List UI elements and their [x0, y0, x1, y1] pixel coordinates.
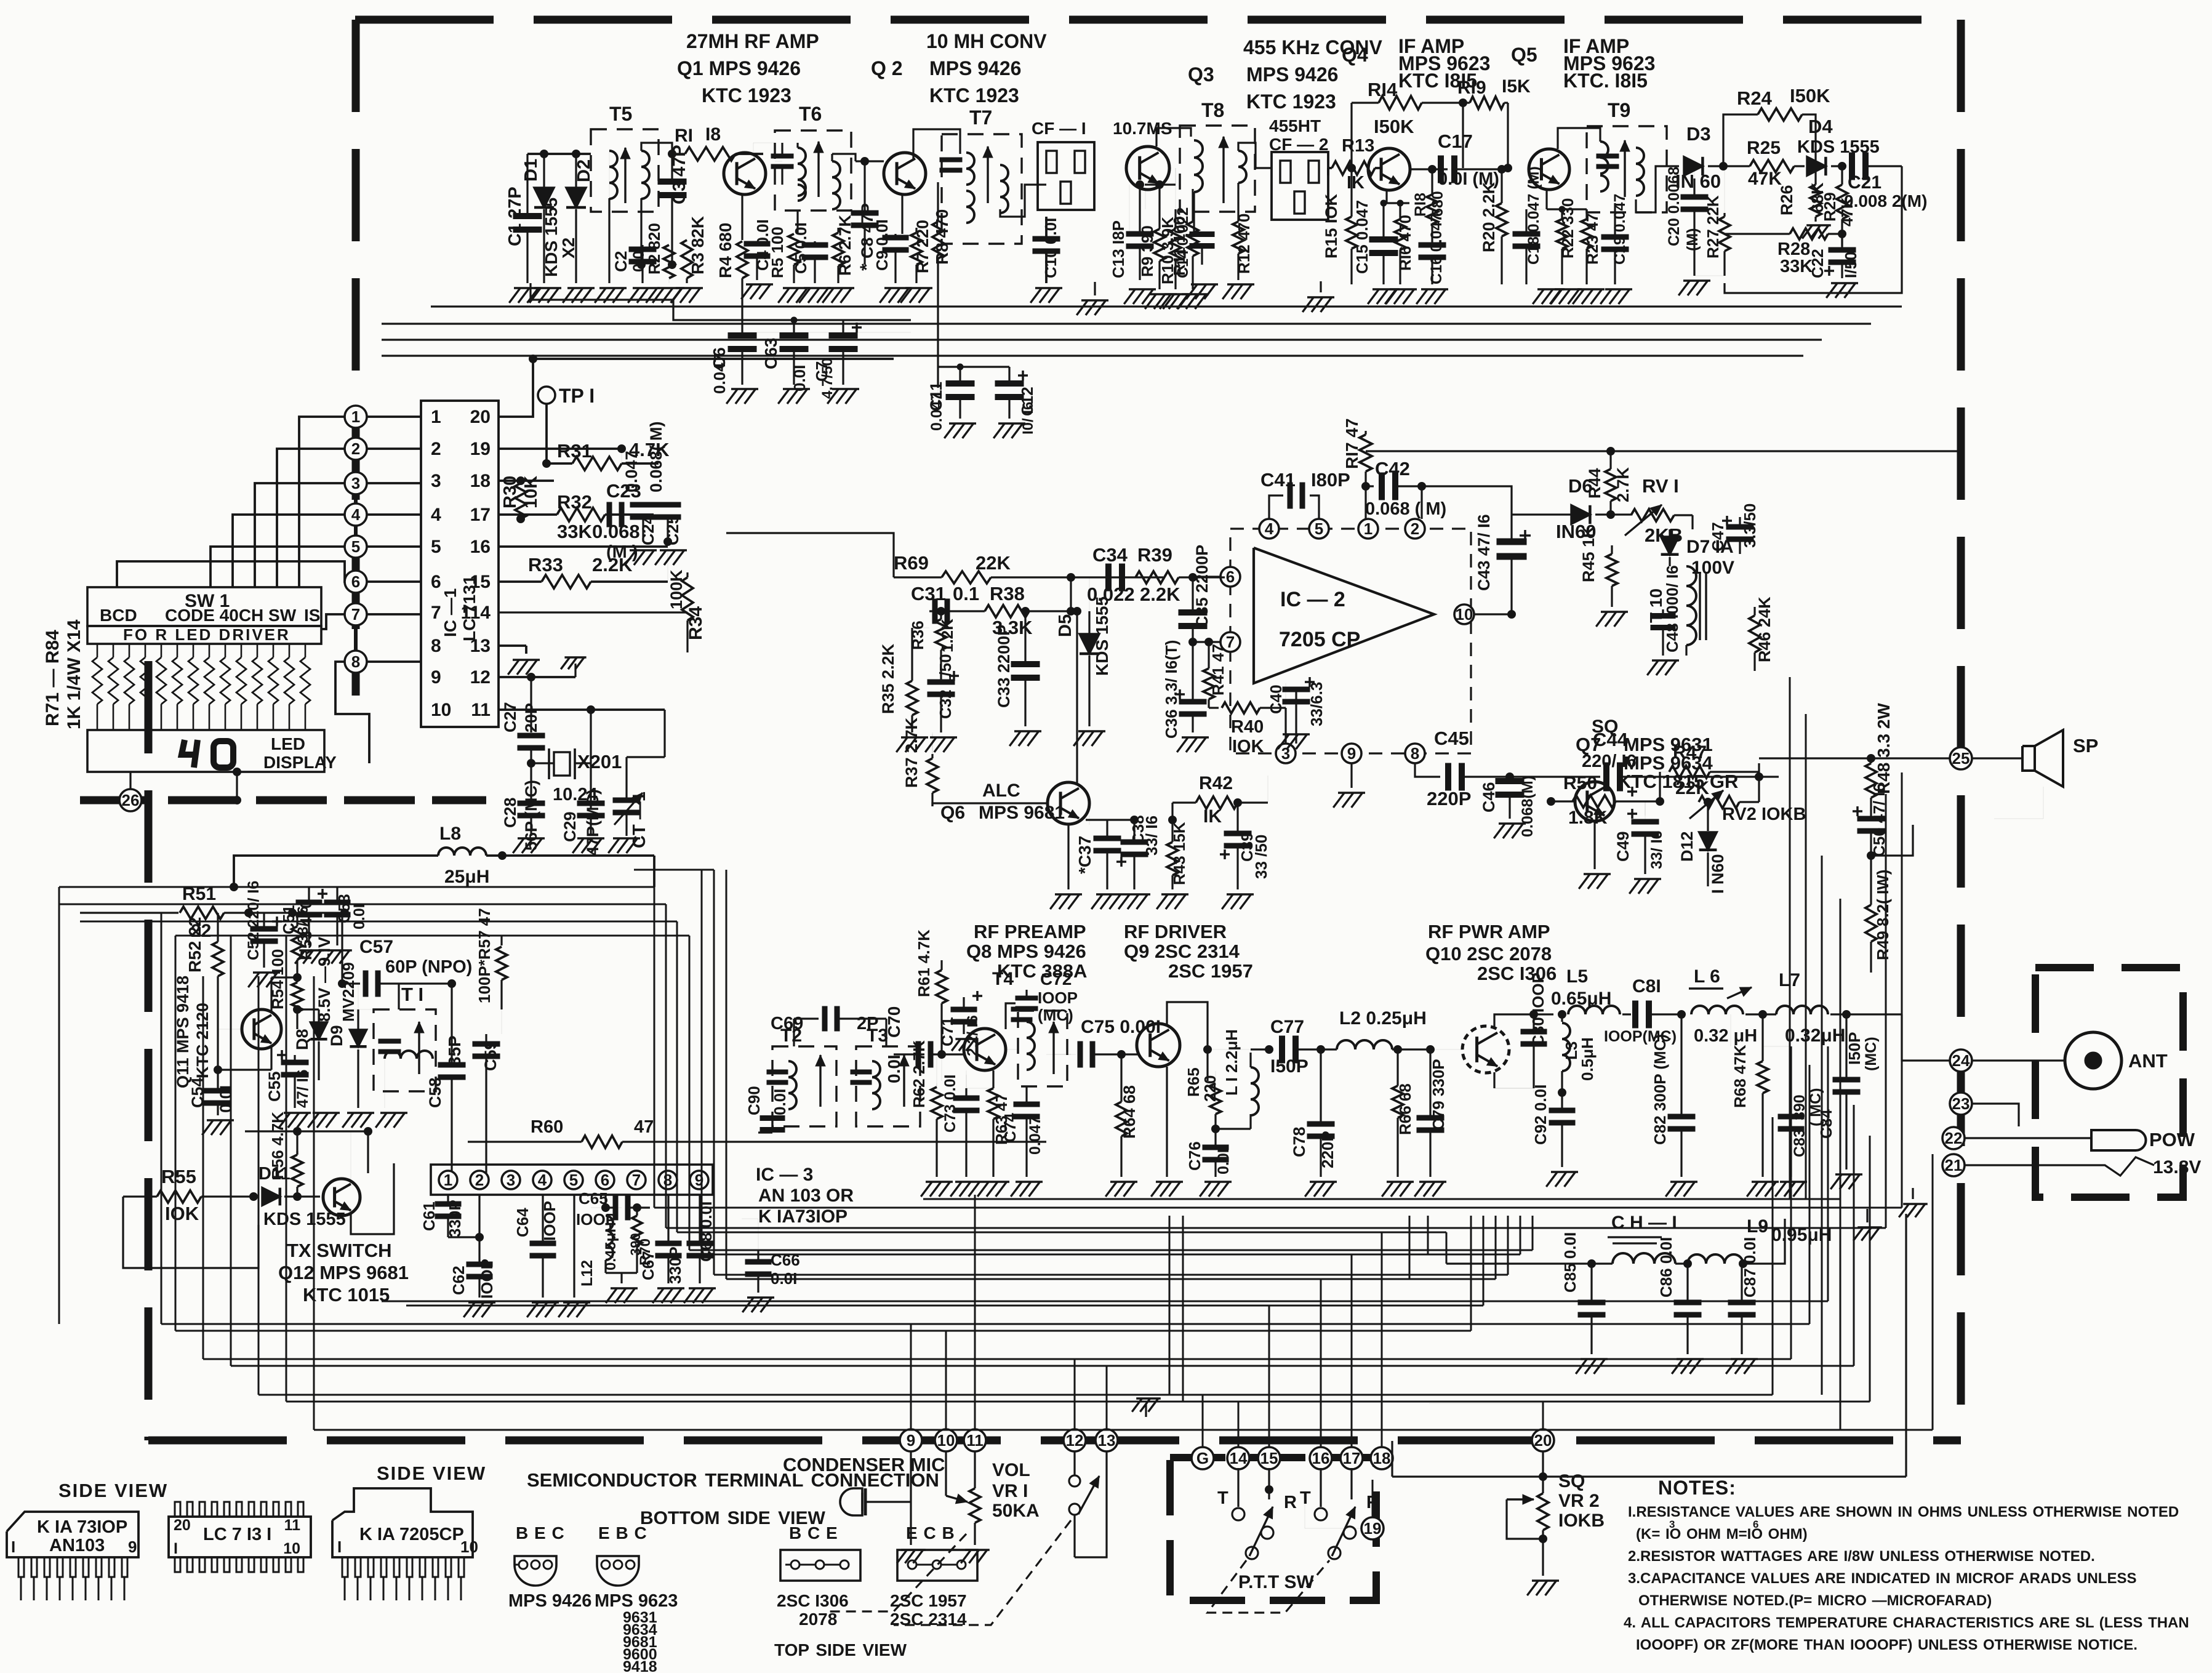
CF-1 out: [1145, 183, 1176, 185]
T4 coil: [1027, 1022, 1035, 1070]
capacitor C53 0.01: [336, 887, 338, 900]
wire TP1 stub: [545, 404, 548, 463]
svg-text:33/ I6: 33/ I6: [1142, 816, 1161, 856]
wire coil L8: [438, 848, 486, 856]
connector node 21: [1942, 1154, 1965, 1176]
svg-text:D4: D4: [1808, 116, 1833, 137]
wire R50 right to RV2: [1616, 800, 1660, 802]
connector node 8: [345, 651, 367, 673]
svg-text:C14 0.022: C14 0.022: [1174, 207, 1192, 278]
IC-3 pin 6: [596, 1171, 614, 1189]
svg-text:R27 22K: R27 22K: [1704, 195, 1722, 259]
svg-text:IOKB: IOKB: [1558, 1511, 1605, 1531]
ground D1: [534, 287, 561, 289]
svg-text:L I 2.2μH: L I 2.2μH: [1222, 1029, 1241, 1096]
resistor R48 3.3 2W: [1867, 755, 1875, 763]
ground VR2: [1532, 1579, 1559, 1582]
wire Q3 emitter: [1145, 190, 1146, 209]
capacitor C9 0.01: [894, 234, 896, 238]
coil L1 2.2uH: [1251, 1067, 1259, 1115]
capacitor C54 0.01: [217, 1080, 218, 1088]
svg-text:C79 330P: C79 330P: [1429, 1059, 1448, 1130]
svg-text:33 /50: 33 /50: [1252, 835, 1270, 879]
CF-1 gnd lead: [1094, 282, 1096, 295]
ground VR1: [965, 1549, 990, 1551]
svg-text:5: 5: [569, 1171, 578, 1189]
capacitor C7 4.7/50: [842, 320, 844, 335]
resistor R9 390: [1158, 185, 1160, 229]
wire bus line y2151: [161, 1323, 1809, 1325]
ground Q7: [1584, 873, 1611, 875]
capacitor C44 220/16: [1510, 776, 1600, 777]
wire bus line y1962: [654, 1207, 1902, 1209]
wire Q11 emitter: [270, 1045, 272, 1070]
svg-text:0.047: 0.047: [622, 451, 641, 492]
ground T5 pri: [599, 287, 627, 289]
wire node 6 to IC-1 pin 6: [356, 580, 421, 583]
resistor R53 470: [296, 913, 298, 926]
svg-text:OTHERWISE NOTED.(P= MICRO —MIC: OTHERWISE NOTED.(P= MICRO —MICROFARAD): [1638, 1592, 1992, 1609]
wire pin2-C43: [1422, 486, 1512, 539]
ground C78: [1310, 1181, 1337, 1183]
svg-text:16: 16: [1312, 1449, 1330, 1467]
svg-text:0.32μH: 0.32μH: [1785, 1025, 1845, 1046]
svg-text:50KA: 50KA: [992, 1501, 1040, 1521]
pcb outline dashed border upper-left vertical: [352, 20, 360, 696]
resistor R4 680: [737, 241, 748, 278]
IC-3 pin 8: [659, 1171, 677, 1189]
svg-text:E B C: E B C: [598, 1523, 647, 1543]
capacitor C38 33/16: [1133, 820, 1135, 840]
ground R3: [676, 287, 703, 289]
svg-text:8: 8: [1411, 744, 1419, 763]
wire R19 risers: [1462, 103, 1464, 168]
capacitor C67 330P: [667, 1194, 669, 1241]
svg-text:R46 24K: R46 24K: [1755, 596, 1774, 662]
svg-text:3: 3: [507, 1171, 515, 1189]
ANT POW dashed box: [2035, 968, 2183, 1197]
svg-text:C59: C59: [481, 1040, 500, 1071]
diode D11 KDS1555: [262, 1188, 280, 1206]
svg-text:1: 1: [1364, 520, 1372, 538]
resistor R66 68: [1397, 1049, 1398, 1086]
wire Q2 emitter: [901, 195, 903, 234]
wire bus riser x3064: [1885, 794, 1887, 1228]
svg-text:11: 11: [471, 700, 491, 720]
wire IC-1 pin19: [499, 447, 622, 450]
svg-text:0.047: 0.047: [928, 392, 945, 431]
resistor R41 47: [1208, 642, 1209, 668]
svg-text:L12: L12: [579, 1260, 596, 1286]
resistor R34: [686, 572, 688, 577]
connector node 12: [1064, 1429, 1086, 1451]
wire Q10 collector: [1494, 1014, 1534, 1027]
ground C5: [804, 287, 831, 289]
wire D4 to C21: [1831, 165, 1846, 167]
connector node 24: [1950, 1049, 1972, 1072]
diode D12 IN60: [1707, 802, 1709, 831]
switch at node 12: [1073, 1451, 1075, 1475]
pin9 lead: [1350, 763, 1352, 788]
svg-text:KDS 1555: KDS 1555: [1092, 596, 1112, 676]
resistor R18 680: [1431, 169, 1433, 195]
svg-text:0.32 μH: 0.32 μH: [1694, 1026, 1757, 1046]
svg-text:C74: C74: [1001, 1113, 1019, 1142]
wire Q5 collector to T9: [1558, 128, 1600, 149]
svg-text:0.45μH: 0.45μH: [603, 1222, 619, 1270]
svg-text:2.2K: 2.2K: [592, 554, 633, 576]
svg-text:R32: R32: [557, 491, 592, 513]
wire Q10 base: [1430, 1049, 1463, 1050]
wire SP return: [1994, 787, 2043, 819]
svg-text:C28: C28: [501, 797, 519, 828]
switch linkage dashes: [894, 1520, 1071, 1625]
connector node 15: [1258, 1447, 1280, 1469]
pcb outline dashed border right: [1957, 20, 1965, 1440]
IC-3 pin 9: [690, 1171, 708, 1189]
ground C25: [660, 549, 687, 552]
svg-text:17: 17: [1343, 1449, 1361, 1467]
wire bus riser x2970: [1827, 1046, 1829, 1301]
wire pin2 down: [478, 1194, 480, 1237]
wire pin16-col: [667, 547, 668, 582]
svg-text:C92 0.0I: C92 0.0I: [1531, 1085, 1550, 1145]
diode D1: [543, 154, 545, 188]
package LC7131 DIP: [169, 1517, 311, 1557]
svg-text:C71: C71: [938, 1017, 956, 1046]
wire mic to node9: [865, 1501, 911, 1502]
wire C42 down to pin1: [1368, 486, 1369, 519]
svg-text:33/ I6: 33/ I6: [295, 906, 311, 943]
ground C92: [1551, 1171, 1578, 1173]
svg-text:R44: R44: [1585, 468, 1604, 499]
connector node 13: [1096, 1429, 1118, 1451]
wire T5 sec to C2 node: [640, 263, 642, 265]
svg-text:R7 220: R7 220: [913, 220, 932, 273]
svg-text:33K: 33K: [557, 521, 592, 542]
capacitor C41 180P loop: [1269, 495, 1283, 519]
svg-text:R41 47: R41 47: [1209, 644, 1227, 696]
svg-text:0.1: 0.1: [953, 583, 979, 604]
ground R35: [901, 736, 928, 739]
svg-text:RI7 47: RI7 47: [1342, 419, 1361, 470]
capacitor C80 100P: [1533, 1014, 1534, 1029]
svg-text:5: 5: [1315, 520, 1323, 538]
svg-text:220P: 220P: [1427, 788, 1471, 809]
ground C16: [1421, 288, 1448, 291]
svg-text:21: 21: [1945, 1156, 1963, 1174]
svg-text:2.2K: 2.2K: [1140, 584, 1180, 605]
svg-text:2SC 2314: 2SC 2314: [890, 1610, 967, 1629]
svg-text:RF DRIVER: RF DRIVER: [1124, 921, 1227, 942]
svg-text:MPS 9426: MPS 9426: [929, 57, 1021, 79]
svg-text:LC 7 I3 I: LC 7 I3 I: [203, 1525, 271, 1544]
IC-3 pin 4: [533, 1171, 551, 1189]
ground pin13: [513, 659, 540, 661]
svg-text:100P*R57 47: 100P*R57 47: [475, 908, 494, 1003]
svg-text:I80P: I80P: [1311, 469, 1350, 491]
svg-text:24: 24: [1952, 1051, 1970, 1070]
IC-3 pin 2: [470, 1171, 489, 1189]
wire node24 to ANT: [1972, 1059, 2065, 1061]
svg-text:12: 12: [470, 667, 491, 688]
svg-text:BCD: BCD: [100, 606, 137, 625]
svg-text:114: 114: [461, 603, 491, 623]
svg-text:R34: R34: [686, 606, 706, 640]
wire left riser x375: [230, 936, 232, 1366]
ground C52: [253, 971, 280, 974]
svg-text:5: 5: [351, 537, 360, 556]
svg-text:C62: C62: [449, 1266, 468, 1295]
capacitor C21: [1849, 153, 1855, 180]
svg-text:RV2 IOKB: RV2 IOKB: [1722, 804, 1806, 824]
svg-text:18: 18: [1373, 1449, 1391, 1467]
capacitor C39 33/50: [1236, 803, 1238, 831]
wire Q11 base: [218, 1029, 242, 1030]
wire RV1 right: [1674, 514, 1693, 516]
wire L1/R65 bottom: [1214, 1114, 1216, 1129]
svg-text:T8: T8: [1201, 99, 1224, 121]
svg-text:1.8K: 1.8K: [1568, 808, 1608, 828]
wire L8 junction: [486, 854, 502, 857]
IC-3 pin 7: [627, 1171, 646, 1189]
capacitor C82 300P(MC): [1680, 1014, 1682, 1114]
svg-text:R45 1K: R45 1K: [1579, 526, 1598, 582]
ground C7: [832, 388, 859, 390]
svg-text:10: 10: [937, 1431, 955, 1450]
wire bottom riser x1584: [974, 1195, 976, 1429]
svg-text:33/6.3: 33/6.3: [1307, 682, 1326, 726]
capacitor *C37: [1107, 820, 1108, 832]
wire riser x1082b: [665, 904, 667, 1228]
resistor R12 470: [1237, 183, 1239, 222]
resistor R63 47: [992, 1070, 994, 1088]
svg-text:CF — 2: CF — 2: [1269, 135, 1328, 154]
capacitor C11 0.047: [959, 367, 961, 382]
svg-text:(K= IO OHM M=IO OHM): (K= IO OHM M=IO OHM): [1636, 1526, 1808, 1543]
svg-text:SQ: SQ: [1558, 1471, 1585, 1491]
diode D3 IN60: [1684, 157, 1702, 175]
svg-text:R20 2.2K: R20 2.2K: [1480, 182, 1498, 252]
resistor bank R71-R84: [97, 644, 98, 657]
svg-text:13.8V: 13.8V: [2153, 1157, 2201, 1178]
wire node 3 branch to SW1: [255, 483, 356, 587]
svg-text:D3: D3: [1686, 123, 1711, 145]
svg-text:R23 47: R23 47: [1583, 213, 1601, 265]
ground C10: [1035, 287, 1062, 289]
svg-text:C46: C46: [1480, 782, 1498, 812]
wire IC-1 pin17: [499, 513, 557, 516]
capacitor C4 0.01: [742, 258, 757, 259]
capacitor C77 150P: [1280, 1036, 1285, 1063]
wire Q12 collector: [350, 1131, 351, 1182]
ground C62: [468, 1301, 495, 1304]
T9 coils: [1600, 142, 1608, 174]
svg-text:R24: R24: [1737, 87, 1773, 109]
wire bus line y1469: [59, 904, 666, 905]
transformer T5 coils: [609, 151, 617, 199]
svg-text:C5 0.0I: C5 0.0I: [791, 222, 810, 274]
svg-text:C31: C31: [911, 583, 946, 604]
svg-text:C84: C84: [1817, 1109, 1835, 1139]
svg-text:FO R LED DRIVER: FO R LED DRIVER: [123, 625, 291, 644]
svg-text:0.068 ( M): 0.068 ( M): [1365, 499, 1446, 519]
capacitor C28 56P(MC): [518, 801, 545, 806]
ground C13: [1129, 288, 1156, 291]
choke CH-1: [1551, 1262, 1613, 1264]
capacitor C87 0.01: [1741, 1264, 1742, 1300]
T8 cap: [1190, 232, 1214, 237]
ground C76: [1204, 1181, 1232, 1183]
resistor R6 2.7K: [837, 228, 839, 233]
svg-text:7: 7: [632, 1171, 641, 1189]
capacitor C55 47/16: [294, 1055, 295, 1060]
capacitor C16 0.047: [1419, 243, 1446, 247]
IC-3 pin 1: [439, 1171, 457, 1189]
svg-text:C49: C49: [1614, 831, 1632, 862]
resistor R8 470: [937, 182, 939, 222]
wire node 8 to IC-1 pin 8: [356, 660, 421, 663]
capacitor C62 100P: [479, 1194, 480, 1237]
ground T1: [387, 1116, 389, 1118]
svg-text:R25: R25: [1747, 138, 1781, 158]
svg-text:9: 9: [431, 667, 441, 688]
wire Q6 emitter rail: [1089, 816, 1090, 825]
svg-text:Q6: Q6: [940, 803, 965, 823]
svg-text:R15 IOK: R15 IOK: [1322, 193, 1340, 259]
ground pin5: [573, 1194, 575, 1298]
svg-text:SIDE VIEW: SIDE VIEW: [58, 1480, 168, 1501]
PTT switch box: [1170, 1458, 1376, 1600]
svg-text:8: 8: [351, 652, 360, 671]
coil L3 0.5uH: [1561, 1014, 1563, 1022]
resistor R38 3.3K: [985, 605, 1029, 617]
svg-text:DISPLAY: DISPLAY: [263, 753, 337, 772]
capacitor C65 100P: [604, 1194, 606, 1208]
svg-text:R: R: [1284, 1493, 1297, 1512]
wire C27 to C28: [530, 748, 532, 800]
wire L12/R70 bottom: [606, 1272, 637, 1274]
ground C84: [1835, 1173, 1862, 1176]
capacitor C76 0.01: [1214, 1129, 1216, 1145]
coil L5 0.65uH: [1534, 1013, 1553, 1015]
wire right riser x2908: [1789, 677, 1791, 1199]
svg-text:I: I: [11, 1538, 15, 1556]
svg-text:20: 20: [174, 1517, 191, 1534]
svg-text:3.CAPACITANCE VALUES ARE INDIC: 3.CAPACITANCE VALUES ARE INDICATED IN MI…: [1628, 1570, 2136, 1587]
transformer T10 coil: [1686, 566, 1696, 645]
wire riser x1180b: [726, 979, 727, 1279]
svg-text:C55: C55: [265, 1071, 284, 1102]
svg-text:R66 68: R66 68: [1396, 1083, 1414, 1135]
resistor R50 1.8K: [1551, 801, 1563, 802]
svg-text:11: 11: [284, 1517, 301, 1534]
capacitor C24: [643, 500, 644, 532]
resistor R10 3.9K: [1174, 209, 1176, 229]
transistor Q10: [1462, 1026, 1509, 1073]
wire bottom riser x2196: [1351, 1254, 1353, 1447]
svg-text:R37 2.7K: R37 2.7K: [902, 717, 921, 788]
svg-text:C10 0.0I: C10 0.0I: [1041, 218, 1060, 278]
svg-text:330P: 330P: [666, 1246, 684, 1284]
svg-text:C17: C17: [1438, 130, 1473, 152]
ground C82: [1670, 1181, 1697, 1183]
T8 sec out: [1238, 143, 1272, 168]
POW 13.8V lead: [1965, 1157, 2154, 1176]
diode D5 KDS1555: [1089, 577, 1090, 628]
svg-text:R47: R47: [1673, 742, 1707, 763]
wire node 7 branch: [321, 614, 356, 629]
svg-text:C19 0.047: C19 0.047: [1611, 194, 1629, 265]
svg-text:R69: R69: [894, 552, 929, 574]
svg-text:SEMICONDUCTOR TERMINAL CON: SEMICONDUCTOR TERMINAL CONNECTION: [527, 1469, 939, 1491]
wire R52 top: [217, 913, 218, 942]
svg-text:4. ALL CAPACITORS TEMPERATURE: 4. ALL CAPACITORS TEMPERATURE CHARACTERI…: [1624, 1615, 2189, 1631]
svg-text:X2: X2: [559, 238, 578, 259]
svg-text:CT —1: CT —1: [630, 792, 649, 848]
wire node 5 to IC-1 pin 5: [356, 545, 421, 548]
svg-text:47/ I6: 47/ I6: [294, 1069, 311, 1108]
resistor R30: [519, 481, 521, 483]
wire bus line y1497: [80, 921, 677, 923]
connector node 16: [1310, 1447, 1332, 1469]
T9 cap: [1597, 154, 1619, 158]
svg-text:R62 2.7K: R62 2.7K: [910, 1040, 928, 1108]
ground C33: [1014, 730, 1041, 732]
capacitor C92 0.01: [1561, 1093, 1563, 1108]
svg-text:AN 103 OR: AN 103 OR: [758, 1186, 854, 1206]
svg-text:G: G: [1196, 1449, 1209, 1467]
capacitor C29: [577, 801, 604, 806]
svg-text:C29: C29: [561, 811, 579, 842]
connector node 2: [345, 438, 367, 460]
svg-text:LED: LED: [271, 734, 305, 753]
wire riser x1140 up: [701, 870, 703, 936]
svg-text:5: 5: [431, 537, 441, 557]
wire bus line y1413: [634, 869, 714, 871]
svg-text:0.5μH: 0.5μH: [1578, 1037, 1597, 1081]
wire T5 sec top to R1: [641, 143, 685, 154]
svg-text:C20 0.0068: C20 0.0068: [1665, 167, 1683, 246]
capacitor C6 0.047: [728, 333, 756, 339]
capacitor C46 0.068(M): [1509, 777, 1510, 780]
ground C87: [1731, 1358, 1758, 1360]
capacitor C15 0.047: [1369, 237, 1398, 243]
pcb outline dashed border left: [145, 661, 153, 1440]
T8 coils: [1194, 140, 1203, 192]
transformer T9 box: [1587, 126, 1667, 212]
svg-text:T7: T7: [969, 106, 992, 129]
svg-text:ANT: ANT: [2128, 1050, 2168, 1072]
wire C6 row: [742, 332, 911, 333]
wire C61 to C62: [448, 1236, 479, 1238]
ceramic filter CF-1: [1038, 142, 1094, 210]
capacitor C83 390(MC): [1790, 1046, 1792, 1114]
svg-text:C41: C41: [1260, 469, 1296, 491]
svg-text:D8: D8: [293, 1029, 311, 1050]
grounds R66 C79: [1387, 1181, 1414, 1183]
resistor R52 22: [217, 913, 218, 944]
svg-text:IOOP: IOOP: [540, 1201, 559, 1241]
ground stub right2: [1866, 1209, 1868, 1222]
wire bus line y2002: [677, 1232, 1446, 1234]
resistor R11 100: [1192, 189, 1193, 222]
svg-text:I50P: I50P: [1845, 1032, 1864, 1065]
svg-text:2SC I306: 2SC I306: [777, 1591, 849, 1610]
resistor R28 33K: [1776, 233, 1790, 235]
IC U1 IC-1 LC7131 body: [421, 401, 499, 727]
svg-text:0.0I: 0.0I: [790, 365, 809, 391]
